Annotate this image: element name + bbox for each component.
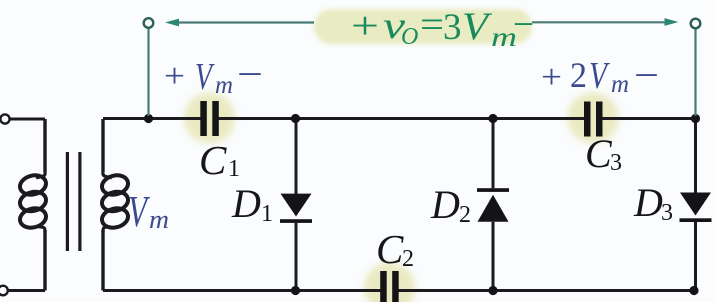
label C3 — [585, 131, 622, 176]
wire: D1 branch lower — [295, 223, 298, 291]
highlight pill behind output label — [314, 9, 532, 44]
wire: bottom rail right segment — [398, 289, 696, 292]
annotation: vO left probe wire (teal) — [147, 28, 149, 116]
highlight behind capacitor C3 — [568, 93, 619, 144]
svg-text:2: 2 — [459, 202, 471, 228]
wire: D2 branch upper — [492, 119, 495, 189]
junction node: top of D1 — [291, 114, 300, 123]
label C1 — [199, 137, 240, 183]
highlight behind capacitor C2 — [364, 263, 415, 302]
svg-text:C: C — [585, 131, 613, 176]
svg-text:O: O — [401, 24, 418, 50]
label D2 — [430, 182, 471, 228]
label +Vm- across C1 — [164, 54, 263, 99]
svg-text:1: 1 — [261, 201, 273, 227]
svg-text:m: m — [215, 72, 233, 99]
capacitor C3 — [584, 102, 603, 137]
junction node: bottom of D1 — [291, 286, 300, 295]
terminal: input bottom-left open circle — [0, 286, 8, 296]
svg-text:C: C — [376, 226, 404, 272]
wire: from bottom-left terminal to primary — [8, 289, 45, 292]
label +vO=3Vm- (output voltage) — [351, 4, 534, 52]
svg-text:2: 2 — [570, 55, 587, 95]
svg-text:m: m — [149, 205, 169, 234]
wire: D3 branch upper — [694, 119, 697, 194]
svg-text:V: V — [462, 5, 493, 48]
svg-text:−: − — [513, 4, 534, 44]
label D3 — [633, 180, 673, 226]
svg-text:+: + — [541, 59, 562, 96]
svg-text:m: m — [611, 71, 629, 98]
transformer T1 secondary winding — [100, 119, 130, 291]
junction node: bottom of D2 — [488, 286, 497, 295]
capacitor C2 — [380, 271, 399, 302]
junction node: top of D2 — [488, 114, 497, 123]
wire: top rail left segment (secondary top to C1) — [103, 117, 201, 120]
wire: bottom rail left segment — [103, 289, 381, 292]
transformer T1 core — [66, 152, 82, 251]
svg-text:−: − — [634, 55, 659, 95]
wire: top rail C1 to C3 — [218, 117, 585, 120]
junction node: top of D3 / vO right tap — [691, 114, 700, 123]
label D1 — [231, 181, 273, 227]
terminal: input top-left open circle — [0, 114, 9, 123]
diode D2 (pointing up) — [477, 188, 509, 222]
svg-text:1: 1 — [228, 156, 240, 182]
svg-text:−: − — [237, 54, 263, 94]
annotation: dimension arrow right half — [532, 18, 679, 26]
junction node: top rail / vO left tap — [144, 114, 153, 123]
capacitor C1 — [200, 101, 219, 136]
junction node: bottom of D3 — [689, 286, 698, 295]
svg-text:V: V — [589, 55, 610, 97]
label Vm (secondary voltage) — [128, 187, 169, 236]
wire: D1 branch upper — [295, 119, 298, 195]
svg-text:V: V — [195, 56, 215, 98]
label C2 — [376, 226, 414, 272]
wire: from top-left terminal to primary — [10, 118, 45, 121]
svg-text:3: 3 — [661, 200, 673, 226]
svg-text:D: D — [231, 181, 261, 226]
wire: top rail C3 to right corner — [602, 117, 696, 120]
svg-text:C: C — [199, 137, 227, 183]
annotation: dimension arrow left half — [165, 19, 314, 27]
svg-text:2: 2 — [402, 246, 414, 272]
highlight behind capacitor C1 — [184, 93, 235, 144]
wire: D2 branch lower — [492, 222, 495, 291]
svg-text:3: 3 — [610, 150, 622, 176]
annotation: vO right probe wire (teal) — [694, 29, 696, 116]
annotation: vO left probe circle — [144, 18, 154, 28]
svg-text:=: = — [420, 4, 444, 46]
svg-text:D: D — [633, 180, 663, 225]
diode D3 — [680, 193, 712, 223]
svg-text:+: + — [351, 5, 379, 47]
annotation: vO right probe circle — [691, 19, 701, 29]
wire: D3 branch lower — [694, 222, 697, 291]
transformer T1 primary winding — [18, 119, 48, 291]
svg-text:3: 3 — [443, 7, 462, 48]
label +2Vm- across C3 — [541, 55, 659, 98]
svg-text:D: D — [430, 182, 460, 227]
svg-text:+: + — [164, 58, 185, 95]
diode D1 — [280, 194, 312, 223]
